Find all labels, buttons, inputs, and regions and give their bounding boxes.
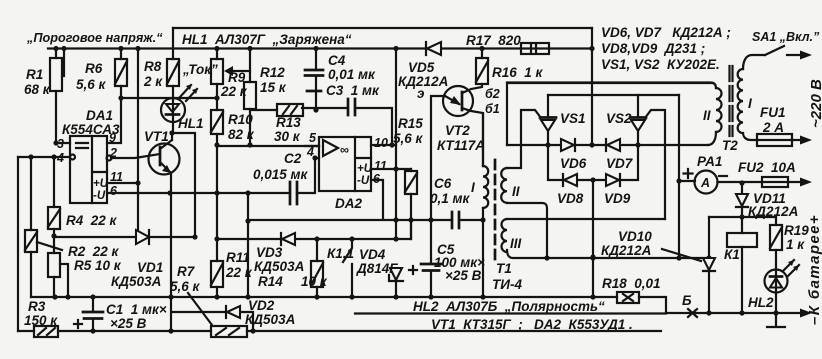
thyristor VS2 xyxy=(637,95,639,117)
svg-text:10 к: 10 к xyxy=(301,274,328,289)
svg-text:×25 В: ×25 В xyxy=(445,268,482,283)
wire: W82 rail to T2 winding II top xyxy=(507,83,713,145)
diode VD7 xyxy=(605,139,607,151)
diode VD6 xyxy=(561,139,574,151)
svg-text:R7: R7 xyxy=(177,264,196,279)
diode VD5 КД212А xyxy=(425,42,427,55)
wire: W180 lower bridge wire xyxy=(548,145,638,180)
wire: W146 to DA2 pin 5 xyxy=(217,145,319,147)
svg-text:Д814Г: Д814Г xyxy=(356,261,398,276)
wire: negative bus from bridge center xyxy=(592,180,594,297)
svg-text:HL2: HL2 xyxy=(748,295,774,310)
svg-text:FU1: FU1 xyxy=(760,105,786,120)
wire: column rail B to VD1 anode with DA1 +U tap xyxy=(135,46,140,51)
resistor R2 (variable) xyxy=(25,157,37,297)
svg-text:C6: C6 xyxy=(434,176,452,191)
diode VD10 КД212А xyxy=(708,217,710,258)
capacitor C5 electrolytic xyxy=(430,220,432,297)
wire: W157 input divider wire to pins 3/4 xyxy=(18,156,70,158)
svg-text:×25 В: ×25 В xyxy=(110,316,147,331)
svg-text:R11: R11 xyxy=(226,250,250,265)
svg-text:C4: C4 xyxy=(328,53,346,68)
wire: DA1 pin9 to R9/R10 junction xyxy=(107,98,218,143)
svg-text:5,6 к: 5,6 к xyxy=(76,77,107,92)
transformer T2 winding II xyxy=(507,83,716,89)
svg-text:FU2 10А: FU2 10А xyxy=(738,160,796,175)
svg-text:HL1: HL1 xyxy=(178,116,204,131)
svg-text:C1 1 мк×: C1 1 мк× xyxy=(106,302,167,317)
transformer T1 winding II xyxy=(501,168,507,203)
svg-text:б2: б2 xyxy=(485,87,500,101)
transistor VT2 КТ117А unijunction xyxy=(443,86,473,116)
zener VD4 Д814Г xyxy=(390,268,402,280)
svg-text:-U: -U xyxy=(93,190,106,202)
svg-text:VT2: VT2 xyxy=(445,123,470,138)
svg-text:R8: R8 xyxy=(144,59,162,74)
svg-text:VD10: VD10 xyxy=(618,229,652,244)
diode VD8 xyxy=(562,174,564,186)
wire: T1 III top down to common xyxy=(507,218,665,220)
resistor R15 xyxy=(405,169,417,239)
wire: R13/C3 feedback wire xyxy=(250,108,392,145)
svg-text:R4 22 к: R4 22 к xyxy=(66,213,118,228)
wire: W239 VD3/K1.1/VD4 wire with jog to W220 xyxy=(217,220,411,239)
svg-text:КТ117А: КТ117А xyxy=(437,138,485,153)
transformer T1 core xyxy=(494,160,497,260)
svg-text:VD3: VD3 xyxy=(256,245,283,260)
svg-text:II: II xyxy=(512,184,520,199)
switch SA1 xyxy=(743,46,800,69)
wire: T1 II bottom to VS2 gate line xyxy=(507,203,547,258)
svg-text:11: 11 xyxy=(110,170,123,184)
diode VD2 branch xyxy=(171,193,253,331)
svg-text:II: II xyxy=(703,108,711,123)
ammeter PA1 xyxy=(679,180,695,182)
resistor R3 150к xyxy=(34,326,58,337)
svg-text:5: 5 xyxy=(309,131,317,145)
resistor R6 xyxy=(118,46,123,51)
svg-text:∞: ∞ xyxy=(340,143,349,157)
svg-text:VD6: VD6 xyxy=(560,156,587,171)
wire: W297 negative bus xyxy=(31,296,617,298)
svg-text:11: 11 xyxy=(374,159,387,173)
svg-text:150 к: 150 к xyxy=(24,313,58,328)
label caption HL2 АЛ307Б Полярность xyxy=(355,312,666,314)
wire: W257 common return xyxy=(507,250,709,258)
wire: W217 relay/indicator feed xyxy=(709,216,776,218)
svg-text:С3 1 мк: С3 1 мк xyxy=(326,83,380,98)
svg-text:R13: R13 xyxy=(276,115,301,130)
svg-text:R1: R1 xyxy=(26,67,43,82)
svg-text:КД503А: КД503А xyxy=(254,259,304,274)
wire: W219 negative/C6 wire xyxy=(248,180,452,220)
svg-text:VS1, VS2 КУ202Е.: VS1, VS2 КУ202Е. xyxy=(601,57,720,72)
transformer T2 winding I xyxy=(738,69,743,133)
resistor R8 xyxy=(167,28,179,98)
svg-text:КД212А: КД212А xyxy=(398,74,448,89)
svg-text:КД212А: КД212А xyxy=(601,243,651,258)
svg-text:„Пороговое напряж.“: „Пороговое напряж.“ xyxy=(26,31,163,45)
svg-text:0,015 мк: 0,015 мк xyxy=(253,167,309,182)
svg-text:РА1: РА1 xyxy=(697,154,722,169)
wire: battery minus rail with node Б xyxy=(666,312,803,314)
wire: bridge top VS anode bus xyxy=(548,94,679,96)
wire: column rail B / pin10 / pin11 / VD4 xyxy=(395,49,397,240)
svg-text:К1: К1 xyxy=(724,247,740,262)
potentiometer R9 xyxy=(214,46,219,51)
svg-text:б1: б1 xyxy=(485,102,500,116)
svg-text:КД503А: КД503А xyxy=(245,312,295,327)
svg-text:R3: R3 xyxy=(28,299,46,314)
svg-text:I: I xyxy=(471,180,475,195)
svg-text:VT1: VT1 xyxy=(144,129,169,144)
svg-text:VD5: VD5 xyxy=(408,60,435,75)
svg-text:6: 6 xyxy=(110,184,118,198)
wire: rail B (threshold rail) xyxy=(48,47,592,49)
svg-text:30 к: 30 к xyxy=(274,129,301,144)
resistor R17 820 xyxy=(521,43,549,54)
svg-text:VD4: VD4 xyxy=(359,247,386,262)
relay contact K1.1 xyxy=(349,236,354,241)
svg-text:SA1 „Вкл.”: SA1 „Вкл.” xyxy=(752,30,820,44)
svg-text:R15: R15 xyxy=(398,116,423,131)
svg-text:C2: C2 xyxy=(284,151,302,166)
svg-text:5,6 к: 5,6 к xyxy=(170,279,201,294)
resistor R16 xyxy=(479,46,484,51)
svg-text:2 А: 2 А xyxy=(762,120,784,135)
svg-text:VD2: VD2 xyxy=(248,298,275,313)
svg-text:VT1 КТ315Г ; DA2 К553УД1: VT1 КТ315Г ; DA2 К553УД1 . xyxy=(431,317,633,332)
svg-text:+U: +U xyxy=(93,178,109,190)
diode VD1 КД503А xyxy=(136,230,149,244)
resistor R18 0,01 shunt xyxy=(639,297,666,313)
resistor R13 xyxy=(277,104,303,116)
svg-text:68 к: 68 к xyxy=(24,82,51,97)
fuse FU1 2A xyxy=(743,133,800,140)
svg-text:R2 22 к: R2 22 к xyxy=(68,244,120,259)
resistor R11 xyxy=(211,145,223,297)
wire: center column x592 positive control supply xyxy=(591,28,593,145)
transformer T2 core xyxy=(730,66,733,136)
svg-text:R14: R14 xyxy=(258,274,283,289)
resistor R19 xyxy=(770,217,782,270)
diode VD3 КД503А xyxy=(280,233,282,245)
svg-text:2 к: 2 к xyxy=(143,74,163,89)
svg-text:VD9: VD9 xyxy=(604,191,631,206)
svg-text:5,6 к: 5,6 к xyxy=(393,131,424,146)
svg-text:R6: R6 xyxy=(85,61,103,76)
wire: DA1 pin 11 stub xyxy=(107,182,138,184)
resistor R12 xyxy=(247,46,252,51)
svg-text:0,01 мк: 0,01 мк xyxy=(328,67,376,82)
svg-text:1 к: 1 к xyxy=(786,237,805,252)
LED HL2 xyxy=(765,270,788,293)
svg-text:R18 0,01: R18 0,01 xyxy=(602,276,661,291)
fuse FU2 10A xyxy=(718,181,806,183)
wire: top rail A xyxy=(173,27,592,29)
capacitor C1 electrolytic xyxy=(92,297,94,331)
svg-text:Т1: Т1 xyxy=(496,261,512,276)
svg-text:R16 1 к: R16 1 к xyxy=(492,65,544,80)
svg-text:Б: Б xyxy=(682,293,692,308)
svg-text:~220 В: ~220 В xyxy=(808,79,822,128)
wire: W220 right of C6 xyxy=(459,219,483,221)
svg-text:VD8: VD8 xyxy=(557,191,584,206)
wire: bottom rail W333 xyxy=(18,330,661,332)
svg-text:VD1: VD1 xyxy=(137,260,163,275)
resistor R1 xyxy=(55,49,57,144)
diode VD11 КД212А xyxy=(739,180,744,185)
svg-text:VS2: VS2 xyxy=(606,111,632,126)
resistor R14 xyxy=(311,239,323,297)
svg-text:КД503А: КД503А xyxy=(111,274,161,289)
capacitor C2 xyxy=(290,182,297,204)
svg-text:6: 6 xyxy=(373,172,381,186)
svg-text:I: I xyxy=(748,96,752,111)
wire: far-left vertical xyxy=(17,157,19,331)
resistor R10 xyxy=(214,95,219,100)
svg-text:9: 9 xyxy=(109,131,116,145)
capacitor C6 xyxy=(452,212,459,228)
wire: VT1 collector branch to VD1 cathode xyxy=(169,130,174,135)
wire: W193 negative wire DA1 pin6 xyxy=(107,192,290,194)
svg-text:К1.1: К1.1 xyxy=(327,246,354,261)
resistor R5 with tap xyxy=(51,233,56,238)
svg-text:15 к: 15 к xyxy=(260,80,287,95)
wire: W236 VD1 wire xyxy=(54,236,195,238)
svg-text:„Ток”: „Ток” xyxy=(182,62,218,77)
capacitor C4 xyxy=(313,46,318,51)
svg-text:HL2 АЛ307Б „Полярность“: HL2 АЛ307Б „Полярность“ xyxy=(413,299,605,314)
transformer T1 winding I xyxy=(482,114,484,166)
svg-text:A: A xyxy=(700,176,710,190)
wire: VS anode bus down to PA1 wire xyxy=(678,95,680,258)
svg-text:HL1 АЛ307Г „Заряжена“: HL1 АЛ307Г „Заряжена“ xyxy=(182,32,352,47)
LED HL1 xyxy=(161,98,185,122)
wire: -U column to W297 xyxy=(247,193,249,297)
svg-text:ТИ-4: ТИ-4 xyxy=(492,277,522,292)
svg-text:VS1: VS1 xyxy=(560,111,586,126)
capacitor C3 xyxy=(348,99,355,115)
svg-text:Т2: Т2 xyxy=(722,138,738,153)
svg-text:R17 820: R17 820 xyxy=(466,33,521,48)
svg-text:–К батарее+: –К батарее+ xyxy=(806,214,822,325)
wire: W145 cathode rail xyxy=(507,144,708,146)
svg-text:10: 10 xyxy=(374,136,388,150)
resistor R7 5,6к xyxy=(211,326,247,337)
svg-text:0,1 мк: 0,1 мк xyxy=(430,191,471,206)
transformer T1 winding III xyxy=(502,219,507,252)
svg-text:VD8,VD9 Д231 ;: VD8,VD9 Д231 ; xyxy=(601,41,705,56)
op-amp DA2 xyxy=(319,137,371,191)
thyristor VS1 xyxy=(547,95,549,117)
diode VD9 xyxy=(606,174,619,186)
svg-text:VD7: VD7 xyxy=(606,156,634,171)
svg-text:DA1: DA1 xyxy=(86,108,113,123)
relay coil K1 xyxy=(741,217,743,313)
svg-text:-U: -U xyxy=(357,175,370,187)
resistor R4 xyxy=(48,157,60,236)
svg-text:VD6, VD7 КД212А ;: VD6, VD7 КД212А ; xyxy=(601,25,731,40)
svg-text:R5 10 к: R5 10 к xyxy=(74,258,122,273)
svg-text:III: III xyxy=(510,236,522,251)
svg-text:DA2: DA2 xyxy=(335,196,362,211)
svg-text:R12: R12 xyxy=(260,65,285,80)
